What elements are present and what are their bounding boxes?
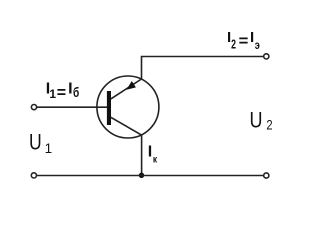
label I2=Ie (emitter current) [227,29,260,52]
svg-text:=: = [57,85,66,102]
svg-text:б: б [73,84,80,100]
transistor VT1 emitter arrow (PNP, points to base) [126,81,135,90]
svg-text:1: 1 [49,87,56,101]
wire top rail [141,56,264,58]
svg-text:э: э [255,40,260,52]
svg-text:=: = [239,32,249,50]
svg-text:I: I [148,144,152,161]
wire collector vertical [141,135,143,176]
svg-text:2: 2 [231,38,236,52]
node terminal right-bottom [264,173,269,178]
transistor VT1 collector lead [111,117,142,135]
svg-text:U: U [250,109,263,133]
svg-text:1: 1 [45,141,53,156]
svg-text:I: I [68,81,72,98]
wire emitter vertical [141,57,143,80]
node input terminal left-top [31,105,36,110]
transistor VT1 base bar [107,91,111,125]
svg-text:U: U [29,131,42,155]
label U1 (input voltage) [29,131,52,156]
transistor VT1 body circle [97,76,159,138]
node terminal left-bottom [31,173,36,178]
label I1=Ib (base current) [46,81,80,102]
svg-text:I: I [250,29,254,46]
label Ik (collector current) [148,144,158,166]
label U2 (output voltage) [250,109,273,133]
node output terminal right-top [264,54,269,59]
transistor VT1 emitter lead [111,79,142,99]
wire base input [37,106,107,108]
wire bottom rail [37,175,264,177]
junction dot collector to bottom rail [139,173,144,178]
svg-text:2: 2 [266,117,272,132]
svg-text:к: к [153,154,157,166]
